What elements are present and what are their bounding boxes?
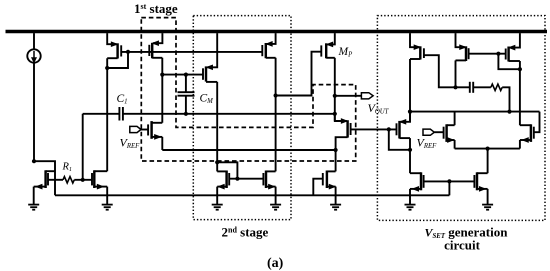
wire rail to current source (33, 33, 35, 49)
pmos MP gate bar (320, 45, 322, 56)
wire diff pair tail (455, 148, 520, 150)
nmos MN4 drain stub (266, 170, 276, 172)
pmos M6 gate bar (202, 68, 204, 80)
nmos MN5 source arrow (329, 184, 335, 188)
capacitor CM lead top (185, 75, 187, 93)
pmos M1 drain stub (107, 57, 117, 59)
wire MV1 drain down (409, 59, 411, 122)
wire MP gate node (276, 52, 322, 96)
nmos MV4 drain stub (447, 124, 455, 126)
wire MN5 source to ground (335, 187, 337, 204)
wire MN5 gate to bias line (313, 179, 323, 196)
nmos MN5 gate bar (322, 173, 324, 185)
nmos MV5 gate bar (533, 127, 535, 139)
pmos MN2 channel (346, 120, 348, 137)
wire MB2 source to ground (106, 187, 108, 204)
wire MN3 MN4 gates (229, 178, 263, 180)
junction dot M1 drain (105, 66, 109, 70)
nmos MB2 gate bar (91, 173, 93, 185)
pmos MT1 drain stub (456, 59, 467, 61)
ground MB2 (102, 205, 113, 210)
pmos MT1 channel (465, 46, 467, 61)
1st stage dashed box (141, 18, 355, 161)
pmos MT2 source arrow (509, 45, 515, 49)
ground MV7 (482, 205, 493, 210)
pmos M2 source arrow (153, 41, 159, 45)
gate wire M1-M2-M5 (121, 51, 262, 53)
junction dot R1 right node (81, 178, 85, 182)
wire R1 to MB2 gate (74, 179, 92, 181)
pmos MP channel (325, 43, 327, 58)
pmos M5 gate bar (261, 45, 263, 56)
junction dot M2 drain node (160, 73, 164, 77)
pmos MT1 source wire (456, 33, 466, 47)
wire VOUT to port (335, 95, 362, 97)
pmos MV3 source stub (400, 112, 410, 122)
pmos MP drain stub (326, 57, 335, 59)
wire MN3 diode connection (217, 162, 237, 178)
wire MT1 drain to node A (455, 60, 457, 87)
wire C1 branch down to R1 node (82, 114, 84, 180)
wire C1 left branch (83, 113, 120, 115)
wire MN3 source to ground (216, 187, 218, 204)
nmos MN4 source arrow (269, 184, 275, 188)
junction dot tail node (334, 148, 338, 152)
nmos MV5 channel (530, 124, 532, 142)
pmos M1 source arrow (111, 42, 117, 46)
svg-text:(a): (a) (267, 256, 284, 271)
pmos MV1 source arrow (414, 45, 420, 49)
pmos MV3 channel (398, 121, 400, 139)
wire MB1 source to ground (33, 187, 35, 204)
capacitor CC plates (469, 82, 471, 93)
capacitor CM lead bottom (185, 96, 187, 114)
nmos MN1 gate bar (147, 124, 149, 135)
nmos MN4 channel (265, 171, 267, 189)
pmos MN2 source arrow (341, 119, 347, 123)
pmos MT2 source wire (510, 33, 520, 48)
nmos MN1 channel (150, 121, 152, 139)
pmos MT1 gate bar (468, 48, 470, 59)
wire M2 drain down to MN1 drain (161, 58, 163, 123)
junction dot VOUT feedback node (333, 112, 337, 116)
wire MB1 gate to R1 (48, 179, 63, 181)
nmos MV7 channel (476, 172, 478, 190)
pmos MV3 drain stub (400, 137, 411, 139)
nmos MV7 drain stub (477, 172, 488, 174)
wire tail down to MN5 drain (335, 150, 337, 171)
pmos MT2 drain stub (509, 60, 520, 62)
pmos MV3 gate bar (396, 123, 398, 135)
pmos M1 source wire (107, 33, 116, 44)
pmos MP source wire (327, 33, 335, 44)
wire bias distribution line (55, 194, 449, 196)
pmos M1 gate bar (120, 45, 122, 56)
junction dot CM bottom (184, 112, 188, 116)
junction dot bias node (32, 159, 36, 163)
nmos MN5 drain stub (327, 170, 336, 172)
pmos MT2 channel (507, 47, 509, 62)
nmos MN1 drain stub (152, 122, 163, 124)
wire VREF port to MN1 gate (141, 129, 148, 131)
svg-text:circuit: circuit (444, 238, 481, 253)
pmos MV1 source wire (410, 33, 420, 47)
wire MV4 source to tail (454, 140, 456, 149)
wire M1 drain down to MB2 drain (106, 58, 108, 171)
wire VREF port to MV4 gate (434, 131, 443, 133)
pmos MP source arrow (327, 42, 333, 46)
junction dot MV1 drain / gate wire node (408, 110, 412, 114)
wire M6 drain down to MN3 (216, 82, 218, 162)
junction dot MT2 drain (518, 67, 522, 71)
pmos MV1 gate bar (423, 48, 425, 58)
pmos M2 gate bar (148, 45, 150, 56)
nmos MV6 source arrow (413, 187, 419, 191)
junction dot MV3 drain / MV6 drain (408, 148, 412, 152)
wire MT1 MT2 gate tie (469, 53, 506, 55)
pmos MN2 gate bar (350, 123, 352, 135)
wire MN4 source to ground (275, 187, 277, 204)
wire first stage output to M6 gate (162, 74, 203, 76)
nmos MN3 drain stub (217, 170, 226, 172)
pmos M2 source wire (153, 33, 162, 43)
wire M5 drain down to MN4 drain (275, 58, 277, 172)
nmos MV5 source arrow (523, 138, 529, 142)
resistor R1 (63, 177, 74, 183)
nmos MB2 source stub (94, 186, 107, 188)
wire M1 diode connection (107, 52, 128, 68)
ground MB1 (28, 205, 39, 210)
wire MV5 diode connection (534, 112, 540, 133)
wire RC to node B (502, 87, 509, 111)
ground MN3 (212, 205, 223, 210)
pmos M6 source wire (207, 33, 217, 67)
nmos MV6 drain stub (410, 172, 421, 174)
pmos MN2 drain stub (336, 137, 348, 150)
wire MV4 drain up to gate bus (454, 112, 456, 126)
wire VSET gate bus (410, 111, 540, 113)
nmos MV6 source stub (410, 188, 421, 190)
nmos MV6 channel (420, 172, 422, 190)
ground MV6 (405, 205, 416, 210)
wire MV6 drain (409, 150, 411, 173)
wire MV1 gate to node A (424, 55, 456, 87)
nmos MN1 source stub (152, 136, 163, 138)
wire MN2 gate to VSET node (351, 128, 397, 130)
junction dot M1 gate (126, 50, 130, 54)
wire MV6 source to ground (409, 189, 411, 204)
nmos MV4 channel (445, 124, 447, 142)
pmos MT2 gate bar (505, 49, 507, 60)
nmos MN3 channel (225, 171, 227, 189)
wire gate node to bias line (448, 181, 450, 195)
wire MT2 diode connection (498, 54, 520, 69)
pmos M6 source arrow (207, 65, 213, 69)
VSET generation circuit dotted box (377, 16, 545, 221)
pmos M6 channel (205, 66, 207, 81)
ground MN5 (330, 205, 341, 210)
pmos MV1 drain stub (410, 58, 420, 60)
2nd stage dotted box (193, 16, 291, 220)
wire MV7 drain to diff pair tail (487, 149, 489, 174)
nmos MN1 source arrow (155, 135, 161, 139)
port VREF first stage (130, 126, 141, 132)
nmos MV4 source arrow (448, 138, 454, 142)
pmos M1 channel (116, 43, 118, 58)
nmos MB2 channel (93, 170, 95, 188)
wire MV3 diode jog (VSET) (389, 129, 410, 149)
pmos M6 drain stub (206, 81, 217, 83)
wire MN3 drain down (216, 162, 218, 171)
nmos MN5 source stub (327, 186, 336, 188)
nmos MB2 drain stub (94, 170, 107, 172)
nmos MV5 source stub (520, 139, 531, 141)
junction dot MN3-MN4 gate node (235, 177, 239, 181)
capacitor C1 plates (118, 107, 120, 121)
wire MN1 source down to tail (161, 137, 163, 150)
wire node A to compensation cap (456, 86, 470, 88)
junction dot CM top (184, 73, 188, 77)
supply rail (6, 30, 548, 34)
pmos M2 drain stub (152, 57, 162, 59)
wire tail node (162, 149, 335, 151)
junction dot VSET node (387, 127, 391, 131)
wire MV7 source to ground (487, 189, 489, 204)
wire MP drain down (VOUT column) (334, 58, 336, 121)
nmos MV5 drain stub (520, 124, 531, 126)
wire MV5 source to tail (519, 140, 521, 149)
pmos M5 channel (265, 43, 267, 58)
pmos M2 channel (151, 43, 153, 59)
nmos MV7 source stub (477, 188, 488, 190)
wire current source down to bias node (33, 63, 35, 162)
junction dot M5 drain / MP gate node (274, 93, 278, 97)
nmos MN3 source arrow (218, 184, 224, 188)
nmos MN4 gate bar (262, 173, 264, 185)
pmos M5 drain stub (266, 57, 276, 59)
nmos MN5 channel (326, 171, 328, 189)
nmos MV4 source stub (447, 139, 455, 141)
pmos MT1 source arrow (460, 45, 466, 49)
pmos MV3 source arrow (400, 120, 406, 124)
junction dot MT2 gate tie (496, 52, 500, 56)
nmos MB2 source arrow (97, 184, 103, 188)
junction dot VOUT port node (333, 94, 337, 98)
current source IB (27, 49, 40, 62)
wire VOUT feedback long wire (123, 113, 335, 115)
wire MV3 drain down (409, 138, 411, 150)
pmos M5 source arrow (266, 42, 272, 46)
nmos MB1 channel (44, 170, 46, 188)
nmos MN4 source stub (266, 186, 276, 188)
junction dot M6 drain / MN3 node (215, 160, 219, 164)
pmos MV1 channel (419, 46, 421, 59)
nmos MB1 source stub (34, 186, 46, 188)
nmos MN3 gate bar (228, 173, 230, 185)
capacitor CM plates (178, 91, 195, 93)
pmos MN2 source wire from VOUT (335, 114, 347, 121)
pmos M5 source wire (267, 33, 276, 44)
nmos MV4 gate bar (443, 127, 445, 139)
junction dot diff pair tail (486, 147, 490, 151)
resistor RC zigzag (491, 84, 502, 90)
port VOUT (361, 93, 373, 99)
node bias jog (34, 161, 55, 195)
junction dot node A (453, 85, 457, 89)
nmos MV7 source arrow (479, 187, 485, 191)
ground MN4 (270, 205, 281, 210)
wire cap to resistor RC (473, 86, 491, 88)
junction dot node B (507, 110, 511, 114)
port VREF second (423, 129, 434, 135)
nmos MB1 drain stub (46, 170, 55, 172)
nmos MV6 gate bar (423, 175, 425, 188)
nmos MV7 gate bar (473, 175, 475, 188)
junction dot MV6 MV7 gate node (447, 179, 451, 183)
nmos MB1 source arrow (36, 184, 42, 188)
nmos MB1 gate bar (47, 173, 49, 185)
nmos MN3 source stub (217, 186, 226, 188)
wire MT2 drain down (519, 61, 521, 125)
wire MV6 MV7 gates (424, 180, 475, 182)
